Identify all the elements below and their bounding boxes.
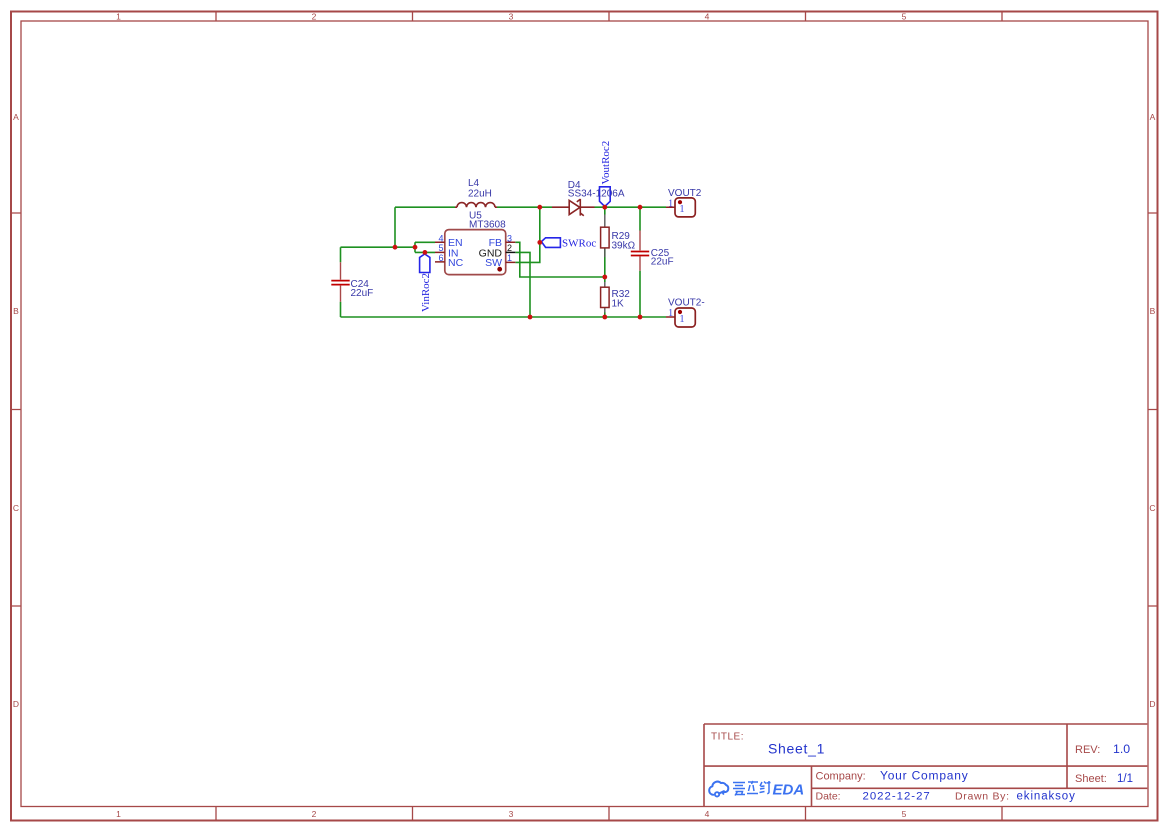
- svg-text:MT3608: MT3608: [469, 219, 506, 230]
- svg-text:1.0: 1.0: [1113, 742, 1130, 756]
- svg-text:VinRoc2: VinRoc2: [420, 273, 432, 312]
- svg-text:Sheet:: Sheet:: [1075, 773, 1107, 785]
- svg-text:GND: GND: [479, 247, 503, 259]
- svg-text:1/1: 1/1: [1117, 773, 1133, 785]
- svg-text:NC: NC: [448, 257, 464, 269]
- svg-text:A: A: [13, 112, 19, 122]
- svg-text:22uF: 22uF: [351, 288, 374, 299]
- svg-text:D: D: [1149, 699, 1155, 709]
- svg-text:1: 1: [668, 198, 673, 209]
- svg-text:1: 1: [116, 12, 121, 22]
- svg-text:2022-12-27: 2022-12-27: [863, 791, 931, 803]
- svg-text:VOUT2: VOUT2: [668, 188, 702, 199]
- svg-text:2: 2: [312, 12, 317, 22]
- svg-text:A: A: [1150, 112, 1156, 122]
- svg-text:2: 2: [507, 243, 512, 253]
- svg-text:3: 3: [509, 12, 514, 22]
- svg-text:1: 1: [507, 253, 512, 263]
- svg-text:C: C: [13, 503, 19, 513]
- svg-text:1K: 1K: [612, 299, 625, 310]
- svg-text:39kΩ: 39kΩ: [612, 241, 636, 252]
- svg-text:D: D: [13, 699, 19, 709]
- svg-text:Date:: Date:: [816, 790, 841, 802]
- svg-text:ekinaksoy: ekinaksoy: [1017, 791, 1076, 803]
- svg-text:1: 1: [679, 314, 684, 325]
- svg-text:VOUT2-: VOUT2-: [668, 298, 705, 309]
- svg-text:L4: L4: [468, 178, 480, 189]
- svg-text:SWRoc: SWRoc: [562, 237, 596, 249]
- svg-text:Your Company: Your Company: [880, 769, 969, 783]
- svg-text:1: 1: [116, 809, 121, 819]
- svg-text:VoutRoc2: VoutRoc2: [600, 141, 612, 185]
- svg-text:TITLE:: TITLE:: [711, 732, 744, 743]
- svg-text:B: B: [13, 306, 19, 316]
- svg-text:1: 1: [668, 308, 673, 319]
- svg-text:6: 6: [438, 253, 443, 263]
- svg-text:1: 1: [679, 204, 684, 215]
- svg-text:3: 3: [509, 809, 514, 819]
- svg-text:SS34-1206A: SS34-1206A: [568, 189, 625, 200]
- svg-text:5: 5: [438, 243, 443, 253]
- svg-text:B: B: [1150, 306, 1156, 316]
- svg-text:22uH: 22uH: [468, 189, 492, 200]
- svg-text:5: 5: [902, 12, 907, 22]
- svg-text:Drawn By:: Drawn By:: [955, 790, 1010, 802]
- svg-text:4: 4: [705, 809, 710, 819]
- svg-text:22uF: 22uF: [651, 257, 674, 268]
- svg-text:5: 5: [902, 809, 907, 819]
- svg-text:EDA: EDA: [773, 782, 805, 799]
- svg-text:Company:: Company:: [816, 770, 866, 782]
- svg-text:REV:: REV:: [1075, 744, 1100, 756]
- svg-text:C: C: [1149, 503, 1155, 513]
- svg-text:4: 4: [705, 12, 710, 22]
- svg-text:2: 2: [312, 809, 317, 819]
- svg-text:Sheet_1: Sheet_1: [768, 741, 825, 757]
